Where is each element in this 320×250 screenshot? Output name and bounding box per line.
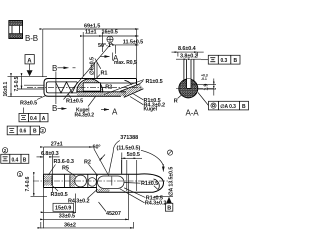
svg-text:R2: R2 — [105, 85, 112, 91]
left feature control frame 0.4 B with circled 2 — [1, 148, 29, 164]
upper view diagonal cut strip (hatched) — [120, 80, 143, 97]
vertical dimension 7.5-0.5 left — [14, 76, 44, 91]
lower view slot stadium — [98, 176, 125, 188]
svg-text:B: B — [52, 64, 57, 73]
svg-text:16±0.5: 16±0.5 — [102, 30, 118, 36]
dimension 36±2 — [41, 222, 134, 229]
svg-text:A-A: A-A — [186, 108, 200, 117]
svg-text:R: R — [174, 98, 178, 104]
dimension 16±0.5 — [102, 30, 139, 36]
svg-text:R4.3±0.2: R4.3±0.2 — [75, 113, 95, 119]
svg-text:Kugel: Kugel — [144, 106, 158, 112]
labels right of upper view — [139, 79, 163, 85]
lower view left hatched block — [44, 175, 53, 185]
A-A section circle hatched — [179, 79, 198, 98]
label 371388 with leader — [109, 135, 138, 174]
ball seat dome (hatched) — [77, 79, 103, 92]
svg-text:A: A — [112, 108, 118, 117]
svg-text:371388: 371388 — [120, 135, 138, 141]
svg-text:36±2: 36±2 — [64, 222, 76, 228]
svg-text:11±1: 11±1 — [85, 30, 97, 36]
svg-text:B: B — [52, 104, 57, 113]
svg-text:∅A 0.3: ∅A 0.3 — [220, 104, 236, 110]
svg-text:60°: 60° — [93, 145, 101, 151]
label R2 lower view — [84, 159, 98, 175]
svg-text:0.3: 0.3 — [221, 58, 228, 64]
svg-text:R1±0.5: R1±0.5 — [141, 181, 158, 187]
svg-text:A: A — [113, 54, 119, 63]
section line B through part — [55, 72, 57, 105]
label R2 upper view — [102, 85, 112, 91]
50 degree angle line — [64, 43, 112, 100]
dimension 6.8±0.3 — [37, 151, 60, 192]
circled minus symbol — [167, 150, 172, 155]
svg-text:0.4: 0.4 — [12, 157, 19, 163]
left feature control frame 0.4 A — [19, 108, 48, 123]
svg-text:R2: R2 — [84, 159, 91, 165]
label R1±0.5 right of slot — [124, 181, 158, 190]
svg-text:3.8±0.2: 3.8±0.2 — [180, 53, 198, 59]
vertical dimension 16±0.1 left — [3, 76, 47, 96]
svg-text:11.5±0.5: 11.5±0.5 — [123, 39, 143, 45]
svg-text:R3±0.5: R3±0.5 — [51, 192, 68, 198]
label R3±0.5 upper view — [20, 96, 46, 107]
svg-text:R4.3±0.2: R4.3±0.2 — [68, 199, 90, 205]
svg-text:45207: 45207 — [106, 211, 121, 217]
section arrow A top — [101, 54, 120, 63]
svg-text:6.8±0.3: 6.8±0.3 — [41, 151, 59, 157]
left extension line y83.9 — [24, 84, 45, 86]
svg-text:-0.1: -0.1 — [201, 77, 207, 81]
label R4.3±0.2 bottom center — [68, 189, 97, 204]
centerline upper view — [27, 86, 142, 88]
label 45207 with leader — [99, 202, 121, 217]
label R3±0.5 lower view — [51, 186, 68, 198]
dimension 27±1 — [44, 142, 122, 229]
bore top line — [100, 82, 136, 84]
position symbol circled cross — [107, 36, 113, 42]
lower view step line — [64, 174, 66, 187]
svg-text:R5: R5 — [62, 165, 69, 171]
dimension 11.5±0.5 — [113, 39, 143, 60]
label R1±0.5 lower right — [124, 188, 163, 202]
svg-text:B: B — [167, 206, 171, 212]
svg-text:R1±0.5: R1±0.5 — [66, 99, 83, 105]
label R3.6-0.3 — [48, 159, 74, 175]
feature control frame 0.3 B top right — [201, 55, 240, 64]
svg-text:0.4: 0.4 — [30, 116, 37, 122]
vertical dia 6±0.5 — [89, 57, 98, 79]
svg-text:R4.3±0.2: R4.3±0.2 — [145, 200, 167, 206]
A-A centerline horizontal — [176, 88, 216, 90]
datum A symbol on top — [25, 55, 34, 77]
label R4.3±0.2 lower right — [120, 189, 166, 207]
svg-text:B: B — [33, 129, 37, 135]
svg-text:B: B — [234, 58, 238, 64]
label R1 top — [95, 59, 107, 79]
dimension 11±1 — [83, 30, 102, 76]
lower view body outline — [44, 174, 164, 192]
thread relief zigzag — [56, 82, 78, 93]
svg-text:∅A 13.5±0.5: ∅A 13.5±0.5 — [168, 167, 174, 196]
svg-text:(11.5±0.5): (11.5±0.5) — [117, 146, 141, 152]
lower view hatch beside circle — [70, 175, 75, 187]
lower view hatch patch under slot left — [98, 189, 110, 192]
dimension 69±1.5 — [43, 24, 139, 78]
svg-text:8.6±0.4: 8.6±0.4 — [178, 46, 197, 52]
dimension 3.8±0.2 — [176, 53, 201, 59]
lower view small seat stadium — [88, 174, 97, 192]
label Kugel R4.3±0.2 lower left of upper view — [75, 96, 97, 119]
dimension 1.9 +0.3/-0.1 — [192, 74, 216, 96]
label R with leader (A-A) — [174, 95, 182, 104]
dimension 8.6±0.4 — [172, 46, 204, 56]
svg-text:B: B — [23, 157, 27, 163]
label 60° with angle lines — [93, 145, 109, 176]
svg-text:R3±0.5: R3±0.5 — [20, 101, 37, 107]
left feature control frame 0.6 B — [7, 126, 45, 135]
upper view body outline — [44, 79, 137, 97]
svg-text:R1±0.5: R1±0.5 — [146, 79, 163, 85]
dimension (11.5±0.5) — [117, 146, 164, 172]
dimension 33±0.5 — [44, 174, 129, 220]
section B-B view top-left: tube cross-section — [9, 21, 23, 39]
svg-text:7.4-0.6: 7.4-0.6 — [25, 176, 31, 191]
feature control frame concentricity dia 0.3 B — [198, 93, 249, 110]
left bore walls — [46, 82, 77, 93]
label R1±0.5 below thread relief — [66, 94, 83, 105]
svg-text:B: B — [242, 104, 246, 110]
svg-text:33±0.5: 33±0.5 — [59, 214, 75, 220]
dimension 5±0.5 — [121, 152, 142, 191]
datum B bottom — [154, 197, 173, 212]
svg-text:R1: R1 — [101, 70, 108, 76]
section arrow B bottom — [52, 104, 67, 113]
label R5 — [62, 165, 76, 176]
lower view right inner arc — [154, 179, 160, 189]
section arrow B top — [52, 64, 76, 73]
svg-text:5±0.5: 5±0.5 — [127, 152, 140, 158]
svg-text:16±0.1: 16±0.1 — [3, 82, 9, 97]
upper view bottom wall hatched band — [77, 92, 126, 96]
svg-text:B-B: B-B — [25, 34, 38, 43]
A-A boss outline — [184, 60, 194, 82]
svg-text:15±0.9: 15±0.9 — [55, 206, 71, 212]
lower view centerline — [33, 180, 168, 182]
dimension 15±0.9 boxed — [44, 194, 76, 214]
svg-text:R3.6-0.3: R3.6-0.3 — [54, 159, 74, 165]
vertical dimension 7.4-0.6 with circled 1 — [17, 172, 47, 197]
lower view circle — [75, 175, 87, 187]
svg-text:0.6: 0.6 — [20, 129, 27, 135]
diagonal leader to R1±0.5 upper right — [104, 80, 144, 95]
section arrow A bottom — [101, 108, 118, 117]
svg-text:A: A — [42, 116, 46, 122]
